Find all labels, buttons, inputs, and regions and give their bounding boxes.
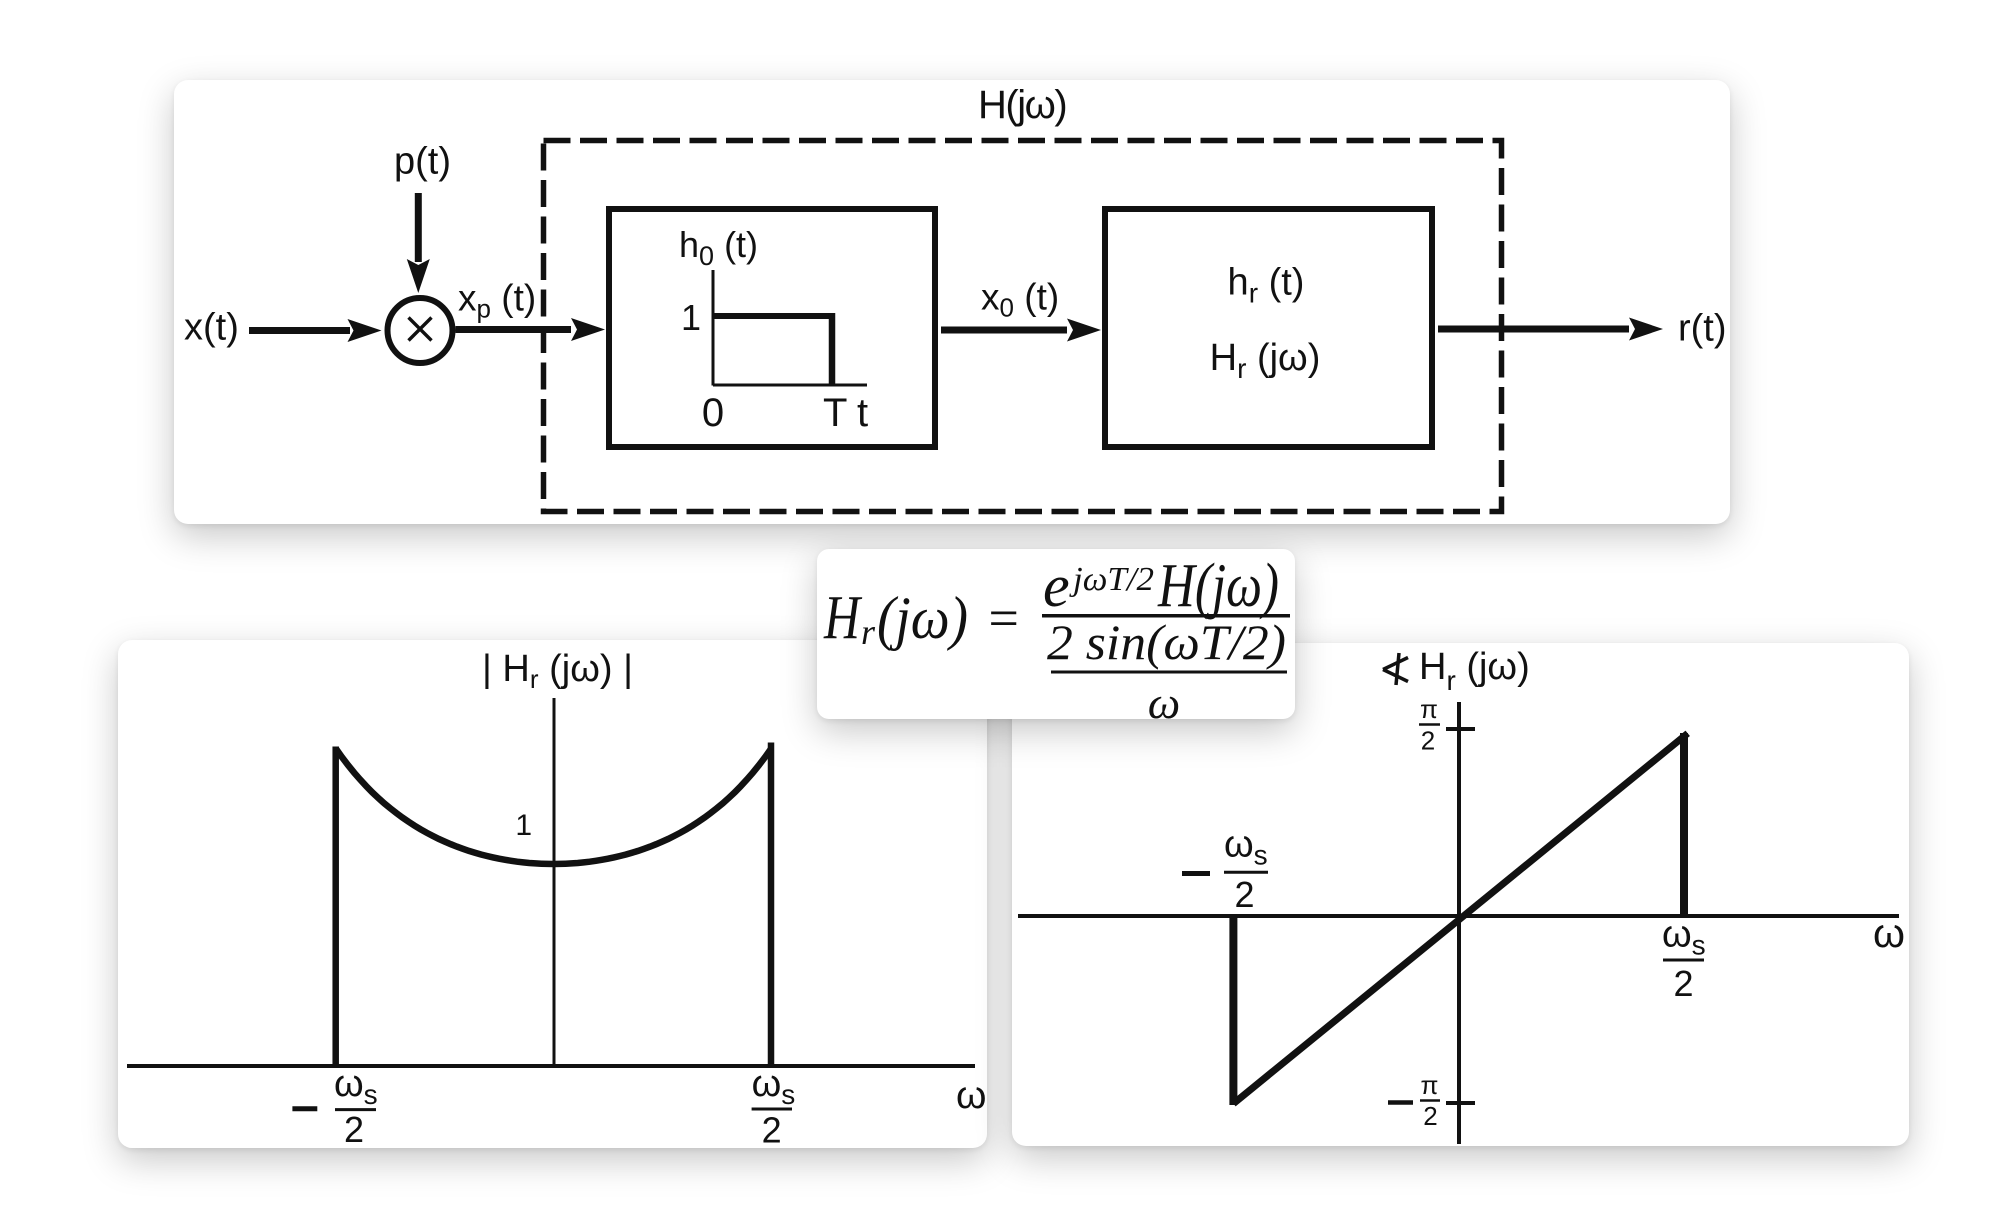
svg-text:2 sin(ωT/2): 2 sin(ωT/2) [1047, 614, 1286, 670]
svg-text:ωs: ωs [752, 1063, 796, 1110]
svg-text:2: 2 [344, 1109, 364, 1150]
svg-text:e: e [1043, 553, 1070, 619]
svg-text:2: 2 [762, 1110, 782, 1151]
svg-text:1: 1 [515, 809, 532, 842]
svg-text:ωs: ωs [1662, 914, 1706, 961]
svg-text:=: = [985, 588, 1021, 648]
svg-text:r(t): r(t) [1678, 307, 1727, 349]
svg-text:hr (t): hr (t) [1228, 261, 1305, 308]
svg-text:2: 2 [1423, 1101, 1437, 1131]
svg-text:(jω): (jω) [877, 585, 968, 651]
svg-text:H: H [823, 584, 862, 652]
svg-text:H(jω): H(jω) [1157, 552, 1279, 620]
svg-text:ω: ω [956, 1074, 986, 1117]
svg-text:ω: ω [1148, 677, 1180, 728]
svg-text:Hr (jω): Hr (jω) [1419, 646, 1530, 696]
svg-text:2: 2 [1421, 726, 1435, 756]
svg-text:p(t): p(t) [394, 140, 451, 182]
svg-text:H(jω): H(jω) [978, 83, 1066, 127]
svg-text:0: 0 [702, 391, 724, 435]
svg-text:r: r [861, 612, 876, 652]
svg-text:2: 2 [1673, 963, 1693, 1004]
svg-text:Hr (jω): Hr (jω) [1210, 337, 1321, 384]
svg-text:h0 (t): h0 (t) [679, 224, 758, 271]
svg-text:| Hr (jω) |: | Hr (jω) | [482, 648, 633, 694]
svg-text:xp (t): xp (t) [458, 277, 536, 323]
svg-text:2: 2 [1234, 874, 1254, 915]
svg-text:ωs: ωs [334, 1063, 378, 1110]
svg-text:x(t): x(t) [184, 306, 239, 348]
svg-text:x0 (t): x0 (t) [981, 276, 1059, 322]
svg-text:1: 1 [681, 297, 701, 338]
svg-text:jωT/2: jωT/2 [1069, 561, 1154, 598]
svg-text:π: π [1421, 1070, 1439, 1100]
svg-text:π: π [1420, 694, 1438, 724]
svg-text:ω: ω [1873, 910, 1905, 956]
svg-text:t: t [857, 391, 868, 435]
svg-text:ωs: ωs [1224, 824, 1268, 871]
svg-text:T: T [823, 391, 847, 435]
